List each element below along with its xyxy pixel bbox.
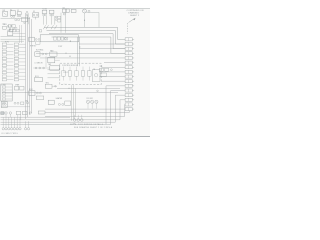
wire module input 2 [48, 73, 60, 75]
svg-text:RLY3: RLY3 [35, 76, 39, 78]
wire drop D2 [45, 16, 47, 25]
svg-text:12345: 12345 [2, 103, 6, 105]
wire cap to module [55, 59, 60, 61]
relay K6 [62, 9, 69, 15]
relay K3 [33, 13, 39, 20]
wire bottom bus B2 [45, 104, 125, 116]
svg-text:TB3: TB3 [100, 66, 103, 68]
fuse F1 [18, 111, 45, 120]
lamp DS1 DS2 DS3 [86, 100, 98, 108]
node cluster G [1, 112, 12, 117]
connector J1 pin column [2, 43, 13, 81]
wire bottom bus B6 [106, 86, 125, 125]
wire bottom bus B5 [1, 91, 126, 125]
wire drop x19 [19, 25, 21, 43]
relay K8 [35, 50, 57, 57]
node cluster E [99, 68, 112, 76]
terminal TB2-3 [125, 47, 134, 50]
svg-text:SHEET 2: SHEET 2 [130, 15, 140, 17]
wire bus L1 to TB2-1 [44, 27, 125, 39]
wire vertical bus V1 [25, 13, 27, 119]
wire drop x61 [60, 13, 62, 33]
svg-text:DS1 DS2: DS1 DS2 [87, 98, 93, 100]
terminal TB2-16 [125, 108, 134, 111]
node cluster F [45, 84, 57, 88]
wire net 117 [1, 116, 71, 118]
wire drop x21 [21, 25, 23, 43]
breaker CB2 [25, 100, 29, 104]
wire drops center [71, 85, 75, 121]
wire net 36 [1, 36, 26, 38]
terminal TB1 aux [24, 121, 29, 130]
wire drop x77 [76, 37, 78, 66]
relay K2 [17, 12, 21, 17]
switch contact SC4 [55, 25, 57, 29]
transformer T1 [1, 102, 7, 108]
node motor M1 [83, 9, 87, 27]
wire bottom bus B1 [45, 111, 129, 113]
wire to TB2-10 [102, 80, 126, 82]
wire net 107 [1, 106, 30, 108]
switch contact SC2 [46, 25, 48, 29]
wire drop x65 [65, 13, 67, 33]
svg-text:CONT: CONT [58, 46, 62, 48]
wire module input 3 [48, 77, 60, 79]
relay K7 [29, 37, 40, 41]
relay K10 [29, 91, 44, 100]
node cluster D [33, 66, 59, 70]
svg-text:LO MED HI: LO MED HI [35, 62, 44, 64]
wire vertical bus V3 [29, 17, 31, 115]
terminal TB2-11 [125, 84, 134, 87]
relay K7 aux [30, 30, 42, 48]
terminal TB2-8 [125, 70, 134, 73]
wire drop x79 [78, 37, 80, 66]
wire drop D1 [43, 16, 45, 25]
wire net 88 [57, 87, 120, 89]
wire drop D3 [50, 16, 52, 25]
svg-text:1 2 3 4 5: 1 2 3 4 5 [63, 72, 69, 74]
terminal TB2-2 [125, 42, 134, 45]
node cluster H [16, 110, 31, 115]
node note text [70, 123, 113, 129]
relay K1 [10, 9, 15, 17]
svg-text:K1: K1 [10, 9, 12, 11]
terminal TB2-10 [125, 80, 134, 83]
capacitor C1 [48, 57, 55, 63]
wire module input 1 [48, 69, 60, 71]
wire bottom bus B4 [1, 95, 126, 122]
wire drop D4 [54, 16, 56, 25]
svg-text:K4 K5: K4 K5 [43, 9, 47, 11]
wire to TB2-6 [104, 62, 125, 64]
wire bottom bus B3 [1, 100, 126, 120]
svg-text:DRAWING: DRAWING [128, 12, 139, 15]
wire to TB2-16 [45, 108, 125, 110]
contactor M2 [48, 97, 71, 106]
wire top page edge [0, 8, 150, 10]
terminal TB2-1 [125, 38, 134, 41]
terminal strip TB1 [2, 117, 21, 130]
svg-text:RLY2: RLY2 [29, 89, 33, 91]
wire bus L2 to TB2-2 [47, 30, 126, 44]
switch contact SC1 [43, 25, 45, 29]
svg-text:CN: CN [93, 69, 95, 71]
switch S1 [2, 10, 7, 16]
module U1 [60, 63, 101, 84]
terminal TB2-6 [125, 61, 134, 64]
wire net 39 [1, 38, 26, 40]
svg-text:. . . . .: . . . . . [63, 82, 67, 84]
svg-text:P1 P2: P1 P2 [5, 41, 9, 43]
terminal TB2-7 [125, 66, 134, 69]
terminal TB2-14 [125, 98, 134, 101]
switch S2 [7, 30, 25, 35]
relay K9 [14, 86, 24, 90]
wire net 92 [2, 92, 118, 94]
node pilot pair [26, 11, 28, 16]
wire bus L4 to TB2-4 [52, 37, 126, 53]
wire to TB2-3 [79, 48, 125, 50]
svg-text:K2: K2 [17, 10, 19, 12]
wire vertical bus V4 [31, 19, 33, 113]
wire drop x28 [27, 13, 29, 24]
terminal TB2-9 [125, 75, 134, 78]
terminal TB2-13 [125, 94, 134, 97]
node cluster A [15, 17, 28, 23]
wire mid dots [65, 53, 70, 57]
node CONTINUED ON DRAWING SHEET 2 [127, 10, 144, 17]
svg-text:SEE DRAWING SHEET 2 OF 2 REV A: SEE DRAWING SHEET 2 OF 2 REV A [74, 126, 113, 129]
breaker CB1 [71, 9, 76, 12]
relay K4 [42, 10, 47, 16]
node cluster C2 [7, 25, 19, 32]
wire top-left header [1, 18, 31, 20]
wire to TB2-9 [99, 76, 125, 78]
svg-text:HTR RLY: HTR RLY [30, 46, 36, 48]
node top-left labels [3, 12, 17, 24]
wire to TB2-8 [99, 71, 125, 73]
terminal E1 E2 E3 [73, 115, 83, 121]
svg-text:K3: K3 [33, 11, 35, 13]
relay K5 [49, 10, 54, 16]
wire dashed continuation [127, 23, 129, 34]
terminal TB2-12 [125, 89, 134, 92]
wire sheet-2 arrow [129, 18, 136, 23]
node cluster B [55, 16, 60, 22]
terminal TB2-15 [125, 103, 134, 106]
relay K11 [35, 76, 43, 82]
wire bottom page edge [0, 136, 150, 138]
svg-text:CB2: CB2 [25, 100, 28, 102]
node cluster T1 aux [14, 102, 24, 105]
wire motor feed [87, 10, 100, 27]
wire net 41 [1, 40, 25, 42]
svg-text:L1 L2 GND C Y W R G: L1 L2 GND C Y W R G [1, 133, 18, 135]
svg-text:CB: CB [63, 8, 65, 10]
node cluster C [3, 25, 16, 30]
terminal TB2-4 [125, 52, 134, 55]
connector J3 [1, 84, 12, 101]
wire to TB2-4 [36, 52, 125, 54]
wire fan to selector [45, 56, 47, 67]
svg-text:E1: E1 [74, 123, 76, 125]
switch contact SC3 [51, 25, 53, 29]
connector J2 pin column [14, 43, 25, 81]
svg-text:CONTROL MODULE: CONTROL MODULE [62, 65, 79, 67]
wire bus L3 to TB2-3 [49, 34, 125, 49]
terminal TB2-5 [125, 56, 134, 59]
wire to TB2-2 [79, 43, 125, 45]
wire vertical bus V2 [27, 15, 29, 117]
wire to TB2-5 [40, 57, 125, 59]
wire to TB2-7 [102, 66, 126, 68]
enclosure control box [40, 35, 78, 42]
